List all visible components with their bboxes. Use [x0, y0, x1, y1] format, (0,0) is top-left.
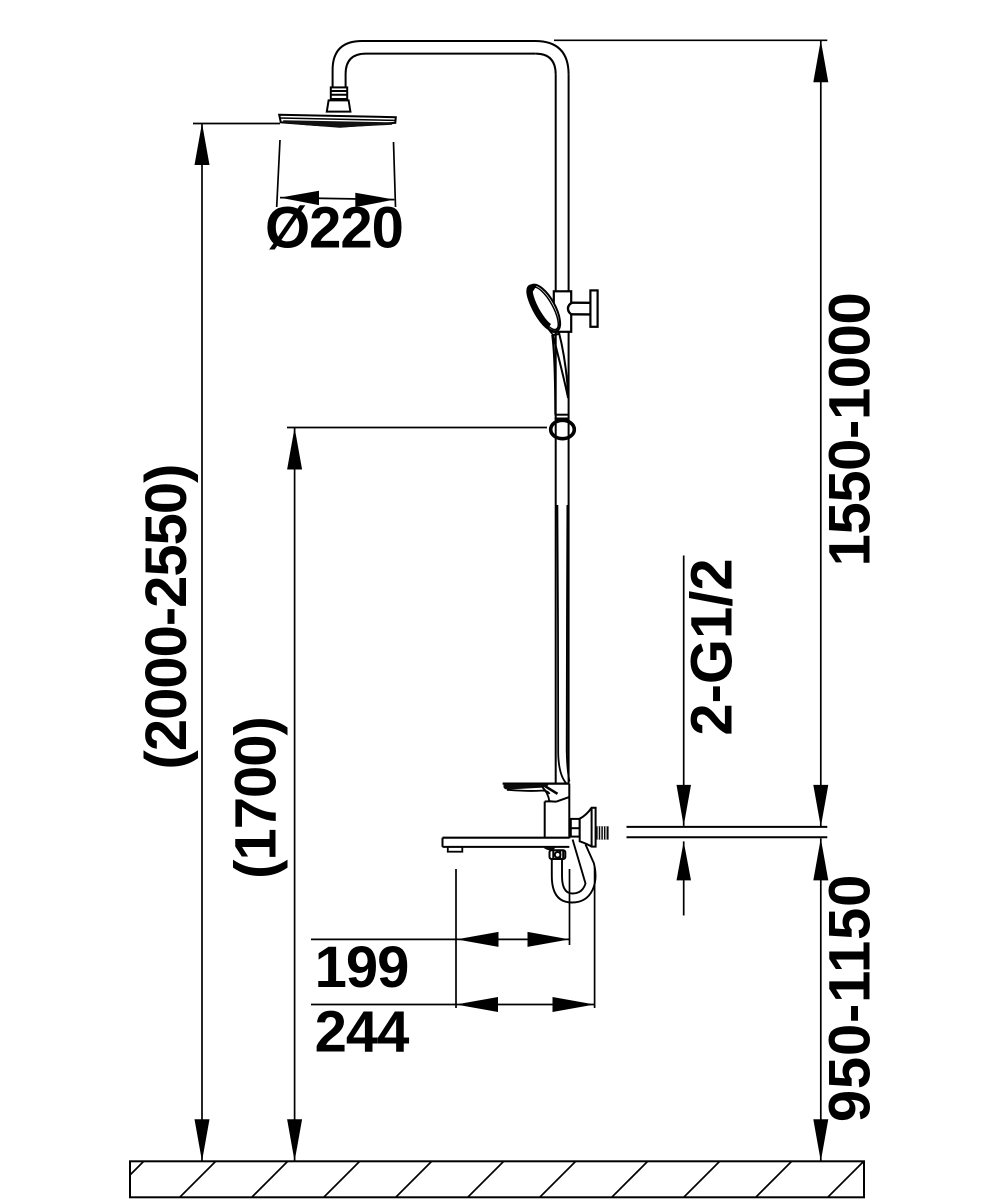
dimension line D220 with arrows: [280, 191, 394, 207]
dimension (1700) vertical line with arrows: [287, 428, 302, 1162]
hand shower holder ring: [551, 420, 575, 438]
dimension (2000-2550) vertical line with arrows: [195, 123, 210, 1161]
mixer lever handle: [503, 784, 570, 802]
shower head disc: [279, 115, 396, 127]
shower arm pipe (horizontal with bends): [333, 41, 569, 87]
dimension 2-G1/2 arrows: [677, 556, 692, 916]
svg-text:199: 199: [315, 935, 409, 1000]
floor slab with hatching: [108, 1161, 864, 1197]
wall surface double lines: [627, 827, 828, 837]
svg-text:1550-1000: 1550-1000: [818, 293, 883, 567]
slider knob: [568, 290, 598, 326]
spout aerator nub: [448, 847, 463, 852]
wall connector block: [571, 819, 580, 837]
svg-text:950-1150: 950-1150: [818, 874, 883, 1122]
dimension 1550-1000 vertical line with arrows: [813, 40, 828, 827]
threaded nipple G1/2: [596, 826, 609, 839]
hose nut under mixer: [550, 850, 566, 859]
hand shower handle: [546, 326, 570, 419]
extension line for 199 right (mixer edge): [569, 869, 571, 945]
shower arm collar nut: [331, 87, 347, 99]
svg-text:2-G1/2: 2-G1/2: [680, 558, 745, 735]
extension line (shower head level): [193, 123, 280, 125]
dimension 950-1150 vertical line with arrows: [813, 838, 828, 1161]
extension line (top, riser level): [554, 39, 827, 41]
svg-text:(2000-2550): (2000-2550): [134, 465, 199, 770]
svg-text:Ø220: Ø220: [265, 195, 403, 260]
riser pipe (vertical): [556, 75, 569, 784]
extension line for 244 right (hose loop): [594, 867, 596, 1008]
extension line for 199/244 left (spout nub): [455, 869, 457, 1008]
dimension 199 line with arrows: [311, 932, 570, 947]
shower head cone: [327, 100, 351, 111]
wall escutcheon cone: [580, 808, 596, 847]
shower hose loop: [552, 840, 596, 903]
svg-text:244: 244: [315, 1000, 410, 1065]
tub spout: [443, 838, 570, 851]
slider block: [554, 291, 571, 332]
diameter dim slant extension lines: [277, 140, 396, 207]
shower hose upper: [557, 505, 569, 783]
svg-text:(1700): (1700): [224, 717, 289, 879]
extension line (holder ring level): [287, 427, 547, 429]
mixer body: [545, 784, 570, 839]
hand shower head: [523, 280, 567, 336]
dimension 244 line with arrows: [311, 997, 595, 1012]
